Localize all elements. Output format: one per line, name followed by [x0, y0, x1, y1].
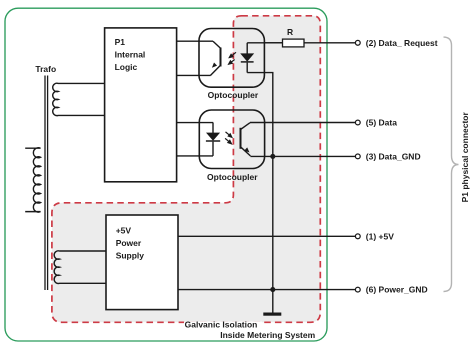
opto2 light arrows	[225, 132, 232, 144]
svg-text:Optocoupler: Optocoupler	[207, 172, 258, 182]
wire: opto2 emitter to terminal 3	[250, 155, 355, 157]
wire: logic to opto1 emitter	[177, 74, 211, 76]
ground symbol	[263, 313, 281, 316]
opto2 body	[199, 110, 264, 169]
vertical bus Data_GND to Power_GND	[272, 156, 274, 289]
block PS1: +5V Power Supply	[106, 215, 178, 310]
svg-text:Supply: Supply	[116, 251, 145, 261]
opto1 body	[199, 29, 264, 88]
svg-text:Trafo: Trafo	[35, 64, 56, 74]
wire: opto1 cathode to vertical bus	[247, 73, 273, 157]
block U1: P1 Internal Logic	[105, 28, 177, 182]
wire: Power_GND to terminal 6	[178, 289, 356, 291]
wire: logic to opto2 cathode	[177, 155, 213, 157]
cover for Galvanic Isolation label	[184, 316, 262, 322]
junction on Data_GND	[270, 154, 275, 159]
opto1 phototransistor Q1	[211, 41, 221, 75]
svg-text:Inside Metering System: Inside Metering System	[220, 330, 315, 340]
wire: resistor to terminal 2	[304, 42, 356, 44]
P1 connector brace	[444, 37, 459, 291]
svg-text:(3) Data_GND: (3) Data_GND	[366, 151, 421, 161]
wire: logic to opto2 anode	[177, 122, 214, 124]
terminal (3)	[355, 154, 360, 159]
opto1 LED D1	[241, 43, 283, 73]
galvanic isolated region (gray fill)	[52, 16, 320, 323]
transformer secondary winding 2 (to +5V supply)	[54, 251, 106, 284]
svg-text:P1 physical connector: P1 physical connector	[460, 111, 470, 202]
opto2 LED D2	[206, 123, 220, 156]
ground stub	[272, 290, 274, 313]
svg-text:Galvanic Isolation: Galvanic Isolation	[185, 319, 258, 329]
inside metering system boundary (green rounded box)	[5, 8, 327, 341]
wire: +5V to terminal 1	[178, 235, 356, 237]
junction on Power_GND	[270, 287, 275, 292]
wire: logic to opto1 collector	[177, 40, 213, 42]
opto1 light arrows	[229, 52, 236, 64]
resistor R	[283, 39, 305, 47]
svg-text:(2) Data_ Request: (2) Data_ Request	[366, 38, 438, 48]
svg-text:Power: Power	[116, 238, 142, 248]
terminal (2)	[355, 40, 360, 45]
svg-text:(5) Data: (5) Data	[366, 118, 397, 128]
transformer secondary winding 1 (to P1 logic)	[53, 83, 105, 115]
terminal (5)	[355, 120, 360, 125]
terminal (6)	[355, 287, 360, 292]
wire: opto2 collector to terminal 5	[250, 122, 356, 124]
svg-text:Optocoupler: Optocoupler	[208, 90, 259, 100]
transformer T1 core	[45, 76, 48, 291]
opto2 phototransistor Q2	[241, 123, 251, 156]
svg-text:(6) Power_GND: (6) Power_GND	[366, 285, 428, 295]
svg-text:+5V: +5V	[116, 226, 132, 236]
svg-text:R: R	[287, 27, 293, 37]
transformer primary winding	[25, 148, 40, 212]
terminal (1)	[355, 234, 360, 239]
galvanic isolation boundary (red dashed)	[52, 16, 320, 323]
svg-text:Logic: Logic	[115, 62, 138, 72]
svg-text:P1: P1	[115, 37, 126, 47]
svg-text:(1) +5V: (1) +5V	[366, 231, 394, 241]
svg-text:Internal: Internal	[115, 50, 146, 60]
wire: opto1 anode to resistor	[264, 42, 282, 44]
